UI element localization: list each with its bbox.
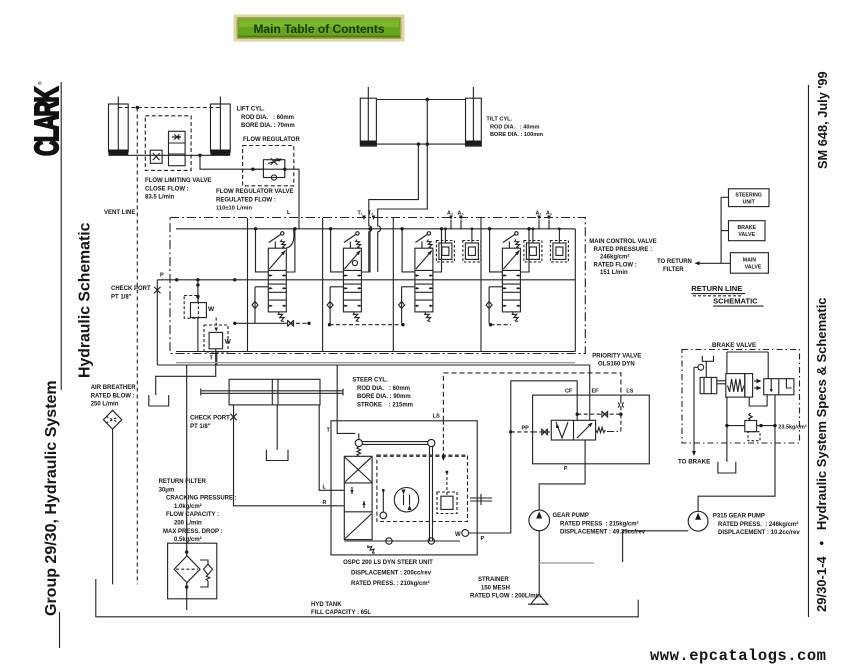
label CHECK PORT PT 1/8 — [111, 286, 151, 300]
pressure reducing valve W2 — [204, 318, 232, 352]
label GEAR PUMP — [553, 513, 646, 536]
node lift bottom junction — [198, 154, 201, 157]
svg-text:REGULATED FLOW :: REGULATED FLOW : — [216, 197, 276, 203]
svg-text:30μm: 30μm — [159, 487, 175, 493]
hyd tank outline — [96, 579, 638, 617]
svg-text:FILTER: FILTER — [663, 267, 684, 273]
svg-text:83.5 L/min: 83.5 L/min — [145, 195, 175, 201]
svg-text:SCHEMATIC: SCHEMATIC — [713, 297, 758, 306]
wire PP pilot dashed — [509, 426, 551, 436]
wire priority P from pump — [539, 440, 585, 510]
wire mcv drain to tank — [156, 349, 216, 395]
wire tilt top — [376, 99, 465, 101]
box BRAKE VALVE — [729, 221, 766, 241]
box STEERING UNIT — [729, 189, 770, 207]
svg-text:ROD DIA. : 40mm: ROD DIA. : 40mm — [490, 124, 539, 130]
svg-text:23.5kg/cm²: 23.5kg/cm² — [778, 424, 807, 431]
svg-text:TO BRAKE: TO BRAKE — [678, 459, 710, 466]
wire pump2 suction — [623, 531, 689, 562]
svg-text:RATED PRESS. : 210kg/cm²: RATED PRESS. : 210kg/cm² — [351, 580, 430, 587]
svg-text:RATED BLOW :: RATED BLOW : — [91, 393, 135, 399]
svg-text:GEAR PUMP: GEAR PUMP — [553, 513, 589, 519]
brake relief valve — [725, 413, 807, 441]
svg-text:DISPLACEMENT : 10.2cc/rev: DISPLACEMENT : 10.2cc/rev — [718, 530, 800, 536]
wire steering P supply — [469, 381, 578, 542]
label P315 GEAR PUMP — [713, 514, 800, 537]
brake valve dashed box — [682, 350, 800, 444]
tank D brake pilot tank — [702, 356, 713, 362]
priority LS throttle network — [576, 400, 624, 432]
wire secondary return line gray — [176, 362, 575, 364]
mcv inner top rail — [176, 228, 575, 230]
label FLOW REGULATOR VALVE — [216, 189, 294, 212]
mcv bottom link line 2 — [328, 323, 405, 326]
check port X2 — [190, 414, 237, 430]
wire brake spool riser — [767, 352, 769, 379]
priority valve outer box — [533, 395, 650, 464]
label SCHEMATIC — [713, 297, 764, 307]
mcv valve section tilt spool U2 — [327, 227, 372, 323]
svg-text:RATED PRESS. : 246kg/cm²: RATED PRESS. : 246kg/cm² — [718, 521, 798, 528]
svg-text:Hydraulic Schematic: Hydraulic Schematic — [77, 222, 94, 378]
label L R ports — [323, 485, 327, 507]
svg-text:ROD DIA. : 60mm: ROD DIA. : 60mm — [357, 386, 410, 392]
wire brake pilot — [705, 361, 707, 377]
svg-text:FLOW REGULATOR VALVE: FLOW REGULATOR VALVE — [216, 189, 294, 195]
svg-text:TILT CYL.: TILT CYL. — [486, 117, 512, 123]
svg-text:OLS160 DYN: OLS160 DYN — [598, 361, 635, 367]
wire brake return to tank — [726, 397, 728, 462]
svg-text:PT 1/8": PT 1/8" — [111, 294, 132, 300]
svg-text:P315 GEAR PUMP: P315 GEAR PUMP — [713, 514, 765, 520]
CLARK logo — [27, 81, 65, 156]
svg-text:FILL CAPACITY : 65L: FILL CAPACITY : 65L — [311, 610, 371, 616]
wire pump2 output to brake valve — [698, 395, 775, 512]
wire steer R line — [234, 405, 345, 506]
svg-text:VALVE: VALVE — [745, 264, 762, 270]
svg-text:Group 29/30, Hydraulic System: Group 29/30, Hydraulic System — [43, 380, 60, 616]
svg-text:ROD DIA. : 60mm: ROD DIA. : 60mm — [241, 115, 294, 121]
left short rule — [59, 612, 61, 648]
svg-text:TO RETURN: TO RETURN — [657, 259, 692, 265]
svg-text:UNIT: UNIT — [743, 200, 756, 206]
label PRIORITY VALVE — [592, 354, 641, 368]
wire to brake line — [678, 372, 710, 466]
svg-text:110±10 L/min: 110±10 L/min — [216, 206, 253, 212]
wire air breather down — [112, 429, 114, 584]
wire pump1 suction — [538, 531, 540, 594]
vertical label Hydraulic Schematic — [77, 222, 94, 378]
label STRAINER — [470, 577, 541, 600]
right rule — [808, 85, 810, 617]
wire tilt bottom — [376, 143, 465, 145]
tank C steer drain tank — [266, 405, 288, 461]
svg-text:EF: EF — [592, 389, 600, 395]
flow limiting valve FL1 — [145, 116, 191, 171]
svg-text:1.0kg/cm²: 1.0kg/cm² — [174, 503, 202, 510]
label AIR BREATHER — [91, 385, 137, 408]
svg-text:CHECK PORT: CHECK PORT — [111, 286, 151, 292]
steering column input — [470, 494, 492, 505]
svg-text:CLARK: CLARK — [27, 86, 65, 156]
svg-text:OSPC 200 LS DYN STEER UNIT: OSPC 200 LS DYN STEER UNIT — [343, 560, 433, 566]
svg-text:HYD TANK: HYD TANK — [311, 602, 342, 608]
wire EF line — [589, 365, 591, 420]
lift cylinder 2 — [211, 97, 231, 156]
svg-text:STEERING: STEERING — [735, 193, 762, 199]
svg-text:RETURN LINE: RETURN LINE — [691, 284, 742, 293]
svg-text:LS: LS — [626, 389, 633, 395]
svg-text:Main Table of Contents: Main Table of Contents — [253, 22, 384, 36]
return filter F1 — [168, 543, 217, 599]
steering unit relief valve — [437, 471, 457, 514]
tank B drain tank — [149, 395, 169, 406]
vent line dashed — [136, 108, 138, 585]
svg-text:W: W — [208, 306, 215, 313]
svg-text:BORE DIA. : 90mm: BORE DIA. : 90mm — [357, 394, 411, 400]
wire main return line — [157, 364, 589, 366]
node tilt bottom junctions — [417, 142, 429, 145]
svg-text:P: P — [160, 273, 164, 279]
svg-text:LS: LS — [433, 414, 440, 420]
svg-text:PT 1/8": PT 1/8" — [190, 424, 211, 430]
wire mcv CF riser — [574, 229, 576, 352]
brake arrows — [754, 379, 762, 390]
node tilt top junction — [426, 98, 429, 101]
svg-text:0.5kg/cm²: 0.5kg/cm² — [174, 536, 202, 543]
svg-text:T₁: T₁ — [358, 211, 363, 217]
brake check circle — [694, 364, 704, 372]
wire dashed lift rod tops — [118, 107, 220, 109]
svg-text:RATED FLOW : 200L/min: RATED FLOW : 200L/min — [470, 594, 541, 600]
svg-text:BORE DIA. : 70mm: BORE DIA. : 70mm — [241, 123, 295, 129]
svg-text:RETURN FILTER: RETURN FILTER — [159, 479, 207, 485]
mcv top port arrows — [362, 216, 551, 221]
steering unit bottom rail — [344, 538, 460, 544]
tank E brake tank — [718, 462, 736, 473]
vertical label Group 29/30, Hydraulic System — [43, 380, 60, 616]
label FLOW LIMITING VALVE — [145, 178, 211, 201]
wire pump interconnect gray — [539, 562, 594, 564]
svg-text:BORE DIA. : 100mm: BORE DIA. : 100mm — [490, 132, 543, 138]
wire tilt line T2 — [378, 100, 428, 218]
wire brake supply riser — [726, 352, 728, 374]
svg-text:STROKE : 215mm: STROKE : 215mm — [357, 402, 413, 408]
svg-text:29/30-1-4 • Hydraulic Syst: 29/30-1-4 • Hydraulic System Specs & Sch… — [814, 297, 829, 612]
button Main Table of Contents — [234, 15, 405, 42]
svg-text:151 L/min: 151 L/min — [600, 270, 628, 276]
svg-text:CHECK PORT: CHECK PORT — [190, 416, 230, 422]
mcv top port labels — [358, 211, 553, 217]
svg-text:MAIN: MAIN — [743, 257, 757, 263]
svg-text:PRIORITY VALVE: PRIORITY VALVE — [592, 354, 641, 360]
label HYD TANK — [311, 602, 371, 616]
priority valve spool — [551, 420, 605, 440]
svg-text:®: ® — [37, 81, 44, 85]
svg-text:LIFT CYL.: LIFT CYL. — [237, 107, 265, 113]
svg-text:CF: CF — [565, 389, 573, 395]
brake master cylinder — [700, 377, 726, 393]
svg-text:150 MESH: 150 MESH — [481, 585, 510, 591]
brake spring box — [726, 374, 753, 398]
svg-text:RATED PRESS : 215kg/cm²: RATED PRESS : 215kg/cm² — [560, 520, 639, 527]
steering unit gerotor — [377, 447, 468, 541]
return line trunk — [695, 197, 731, 265]
svg-text:STRAINER: STRAINER — [478, 577, 509, 583]
wire lift cylinder bottoms — [109, 154, 231, 156]
steering unit spool — [344, 447, 375, 553]
svg-text:W: W — [455, 532, 461, 538]
mcv valve section aux spool U4 — [486, 227, 568, 323]
svg-text:P: P — [481, 536, 485, 542]
steering unit linkage circles — [355, 433, 435, 446]
vertical label 29/30-1-4 Hydraulic System Specs and Schematic — [814, 297, 829, 612]
pressure reducing valve W1 — [184, 280, 215, 352]
label RETURN LINE — [691, 284, 745, 296]
mcv lift spool A-port loop — [286, 229, 294, 248]
LS dashed line steering to priority — [433, 373, 621, 421]
mcv bottom link line 3 — [489, 323, 511, 326]
mcv valve section aux spool U3 — [399, 227, 481, 323]
label RETURN FILTER — [159, 479, 237, 543]
svg-text:SM 648, July '99: SM 648, July '99 — [815, 71, 830, 169]
tilt cylinder 2 — [466, 87, 482, 146]
svg-text:www.epcatalogs.com: www.epcatalogs.com — [650, 647, 826, 665]
check port X1 — [154, 280, 160, 365]
node vent junction — [136, 106, 139, 109]
left rule under CLARK — [60, 82, 62, 390]
brake spool box — [764, 379, 794, 395]
wire filter to tank — [186, 583, 188, 610]
mcv inner bottom rail — [176, 351, 575, 353]
mcv bottom link line 1 with throttle — [233, 320, 311, 327]
lift cylinder 1 — [109, 97, 129, 156]
label MAIN CONTROL VALVE — [589, 239, 656, 276]
wire T1 drop with hop — [369, 218, 372, 272]
wire tilt line T1 — [369, 144, 419, 217]
steering unit LS dashed internals — [377, 421, 466, 461]
wire T2 drop with hop — [378, 218, 381, 272]
steering unit check valve — [380, 489, 387, 519]
box MAIN VALVE — [730, 253, 768, 274]
label OSPC steer unit — [343, 560, 433, 587]
strainer S1 — [528, 594, 550, 604]
tilt cylinder 1 — [360, 87, 376, 146]
gear pump 1 — [529, 510, 550, 531]
svg-text:R: R — [323, 500, 327, 506]
svg-text:CRACKING PRESSURE :: CRACKING PRESSURE : — [166, 496, 237, 502]
air breather symbol — [103, 410, 121, 429]
main control valve outer box — [170, 218, 585, 354]
wire T into steering unit — [327, 365, 356, 434]
wire return line into filter — [186, 365, 188, 556]
svg-text:STEER CYL.: STEER CYL. — [352, 378, 388, 384]
svg-text:RATED PRESSURE :: RATED PRESSURE : — [594, 247, 653, 253]
svg-text:200 L/min: 200 L/min — [174, 521, 202, 527]
wire steer L line — [319, 405, 344, 490]
node P rail junctions — [175, 278, 237, 281]
svg-text:AIR BREATHER: AIR BREATHER — [91, 385, 137, 391]
vertical label SM 648 July 99 — [815, 71, 830, 169]
wire brake spool drain — [749, 395, 767, 406]
wire brake top link — [727, 351, 768, 353]
svg-text:MAIN CONTROL VALVE: MAIN CONTROL VALVE — [589, 239, 656, 245]
svg-text:CLOSE FLOW :: CLOSE FLOW : — [145, 186, 189, 192]
svg-text:FLOW LIMITING VALVE: FLOW LIMITING VALVE — [145, 178, 211, 184]
svg-text:246kg/cm²: 246kg/cm² — [600, 254, 629, 261]
label LIFT CYL — [237, 107, 295, 130]
svg-text:MAX PRESS. DROP :: MAX PRESS. DROP : — [163, 529, 223, 535]
svg-text:FLOW REGULATOR: FLOW REGULATOR — [243, 137, 300, 143]
label CF EF LS ports — [565, 389, 634, 395]
label TO RETURN FILTER — [657, 259, 692, 273]
svg-text:RATED FLOW :: RATED FLOW : — [594, 262, 637, 268]
svg-text:BRAKE VALVE: BRAKE VALVE — [712, 342, 756, 349]
label STEER CYL — [352, 378, 413, 409]
wire to flow regulator — [200, 155, 299, 229]
svg-text:FLOW CAPACITY :: FLOW CAPACITY : — [166, 512, 219, 518]
mcv P rail — [157, 279, 575, 281]
steer cylinder — [201, 379, 343, 405]
wire mcv T to return line — [216, 352, 218, 366]
svg-text:250 L/min: 250 L/min — [91, 402, 119, 408]
wire A1 A2 port stubs — [451, 220, 549, 229]
svg-text:P: P — [564, 466, 568, 472]
steering unit OSPC outer box — [331, 421, 477, 555]
mcv section dividers — [248, 218, 482, 352]
svg-text:BRAKE: BRAKE — [737, 225, 756, 231]
svg-text:PP: PP — [522, 426, 530, 432]
steering unit W port — [455, 530, 469, 538]
gear pump 2 P315 — [688, 511, 708, 531]
svg-text:VENT LINE: VENT LINE — [104, 210, 135, 216]
svg-text:VALVE: VALVE — [738, 232, 755, 238]
svg-text:DISPLACEMENT : 200cc/rev: DISPLACEMENT : 200cc/rev — [351, 571, 432, 577]
mcv valve section lift spool U1 — [252, 227, 297, 323]
label TILT CYL — [486, 117, 543, 139]
flow regulator FR1 — [243, 146, 294, 186]
